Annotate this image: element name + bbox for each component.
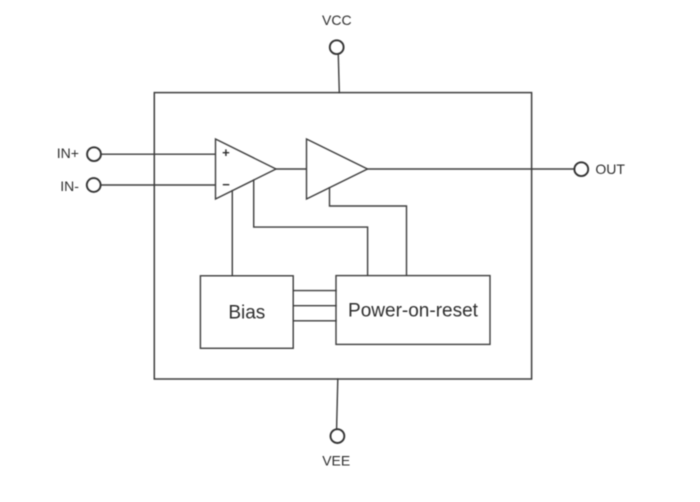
terminal IN+	[87, 147, 101, 161]
op-amp A1	[216, 139, 277, 199]
wire Bias to Power-on-reset bus line 1	[293, 290, 336, 292]
svg-text:VCC: VCC	[322, 12, 352, 28]
wire A1 to Power-on-reset block	[254, 180, 368, 276]
svg-text:OUT: OUT	[595, 161, 625, 177]
IC boundary box	[154, 93, 531, 379]
terminal IN-	[87, 178, 101, 192]
buffer A2	[307, 139, 368, 199]
wire A2 output to OUT	[368, 168, 574, 170]
terminal VEE	[331, 429, 345, 443]
wire VCC stem	[338, 55, 339, 93]
wire A2 to Power-on-reset block	[330, 188, 407, 276]
wire IN- to op-amp A1 inverting input	[102, 184, 216, 186]
wire A1 output to buffer A2 input	[276, 168, 307, 170]
Bias block	[200, 276, 293, 349]
wire A1 to Bias block	[231, 191, 233, 276]
svg-text:+: +	[222, 145, 230, 160]
svg-text:VEE: VEE	[322, 452, 350, 468]
Power-on-reset block	[336, 276, 490, 345]
wire VEE stem	[337, 379, 338, 428]
svg-text:IN-: IN-	[60, 178, 79, 194]
svg-text:Power-on-reset: Power-on-reset	[348, 300, 479, 321]
wire IN+ to op-amp A1 noninverting input	[102, 153, 216, 155]
terminal VCC	[330, 40, 344, 54]
wire Bias to Power-on-reset bus line 3	[293, 320, 336, 322]
svg-text:−: −	[222, 177, 230, 192]
terminal OUT	[574, 162, 588, 176]
svg-text:IN+: IN+	[57, 145, 79, 161]
wire Bias to Power-on-reset bus line 2	[293, 305, 336, 307]
svg-text:Bias: Bias	[228, 303, 265, 324]
